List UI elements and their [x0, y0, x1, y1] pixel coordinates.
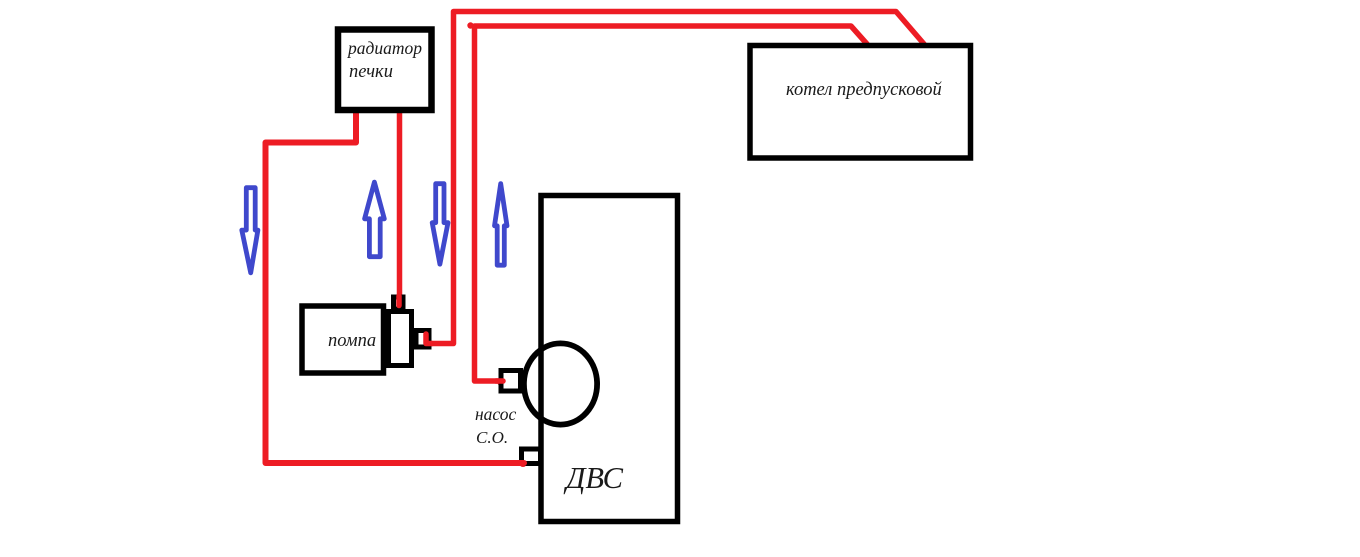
port: pump C.O. inlet square on circle	[501, 371, 521, 392]
svg-text:котел предпусковой: котел предпусковой	[786, 80, 943, 100]
wire: pump right port up and across to boiler top	[426, 12, 924, 344]
svg-text:помпа: помпа	[328, 331, 376, 351]
box: котел предпусковой (pre-start boiler)	[750, 46, 971, 159]
svg-text:С.О.: С.О.	[476, 428, 508, 447]
pump помпа: attached body	[389, 312, 412, 366]
port: pump top connector	[394, 297, 404, 309]
wire end dot at engine pump C.O. port	[498, 379, 506, 387]
circle: насос С.О. (coolant pump)	[524, 343, 597, 424]
wire: return line radiator bottom-left to engine lower port	[266, 107, 525, 463]
pump помпа: main body	[302, 306, 384, 373]
wire stub into pump top port	[396, 296, 402, 306]
port: pump right connector	[416, 331, 429, 348]
port: engine lower return square	[522, 449, 541, 464]
wire: engine pump C.O. port up and across to boiler top	[475, 26, 868, 381]
svg-text:насос: насос	[475, 404, 517, 424]
arrow: flow down (left, beside return line)	[242, 188, 258, 273]
arrow: flow down (beside boiler supply line)	[432, 184, 448, 265]
box: радиатор печки (heater radiator)	[338, 30, 432, 111]
wire end dot at engine lower port	[519, 459, 527, 467]
svg-text:ДВС: ДВС	[563, 461, 624, 495]
wire stub into pump C.O. port	[496, 378, 503, 384]
arrow: flow up (beside engine, narrow)	[495, 184, 508, 266]
svg-text:радиатор: радиатор	[346, 38, 422, 58]
wire: radiator bottom-right down to pump top port	[397, 107, 403, 305]
svg-text:печки: печки	[349, 62, 393, 82]
wire stub into engine lower port	[516, 460, 524, 466]
box: ДВС (engine)	[541, 196, 678, 522]
arrow: flow up (beside radiator-to-pump line)	[365, 182, 385, 257]
wire stub into pump right port	[426, 334, 432, 344]
wire junction dot at inner line corner	[467, 22, 473, 28]
